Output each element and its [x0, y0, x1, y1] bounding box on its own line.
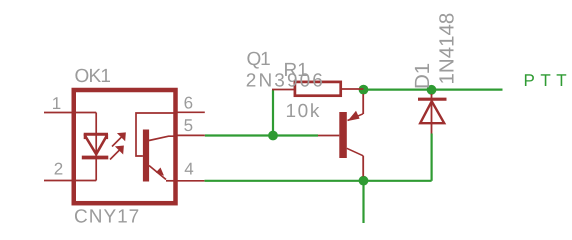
svg-text:D1: D1: [411, 63, 434, 89]
svg-text:4: 4: [184, 160, 193, 179]
svg-text:PTT: PTT: [524, 71, 572, 90]
svg-text:1N4148: 1N4148: [436, 13, 459, 85]
svg-text:OK1: OK1: [75, 66, 111, 87]
svg-text:2: 2: [54, 160, 63, 179]
svg-text:Q1: Q1: [247, 49, 271, 70]
svg-text:CNY17: CNY17: [74, 207, 140, 228]
svg-text:5: 5: [184, 116, 193, 135]
svg-text:R1: R1: [284, 60, 308, 81]
svg-text:1: 1: [52, 94, 61, 113]
svg-text:10k: 10k: [286, 101, 321, 122]
svg-text:6: 6: [184, 93, 193, 112]
